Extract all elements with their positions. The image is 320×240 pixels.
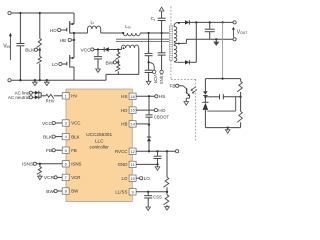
svg-text:HS: HS xyxy=(121,94,127,99)
svg-text:CSS: CSS xyxy=(153,194,162,199)
svg-text:FB: FB xyxy=(71,148,77,153)
svg-text:VCR: VCR xyxy=(71,175,80,180)
svg-text:controller: controller xyxy=(90,145,110,150)
svg-text:ISNS: ISNS xyxy=(22,162,33,168)
svg-text:VCC: VCC xyxy=(42,121,53,127)
svg-text:LO: LO xyxy=(122,176,128,181)
svg-text:BW: BW xyxy=(46,189,54,195)
svg-text:GND: GND xyxy=(118,162,128,167)
svg-text:CBOOT: CBOOT xyxy=(154,114,170,119)
svg-text:VCR: VCR xyxy=(44,175,55,181)
svg-text:VIN: VIN xyxy=(3,44,10,50)
svg-text:RVCC: RVCC xyxy=(115,149,127,154)
svg-text:VCC: VCC xyxy=(80,47,91,53)
svg-text:AC neutral: AC neutral xyxy=(8,95,29,100)
svg-text:ISNS: ISNS xyxy=(71,162,81,167)
svg-text:BW: BW xyxy=(71,189,79,194)
svg-text:FB: FB xyxy=(169,84,175,90)
svg-text:12: 12 xyxy=(130,149,135,154)
svg-text:BLK: BLK xyxy=(25,48,35,54)
svg-text:VCR: VCR xyxy=(153,74,158,83)
svg-text:BLK: BLK xyxy=(71,134,79,139)
svg-text:16: 16 xyxy=(130,94,135,99)
svg-text:HB: HB xyxy=(60,38,66,43)
svg-text:HO: HO xyxy=(158,108,165,114)
svg-text:HB: HB xyxy=(121,122,127,127)
svg-text:ISNS: ISNS xyxy=(159,74,164,84)
svg-text:HO: HO xyxy=(121,108,128,113)
svg-text:FB: FB xyxy=(46,148,52,154)
svg-text:LO: LO xyxy=(52,62,59,67)
svg-text:LL/SS: LL/SS xyxy=(115,190,127,195)
svg-text:LO: LO xyxy=(144,176,151,182)
svg-text:LLC: LLC xyxy=(95,138,104,143)
svg-text:BW: BW xyxy=(105,60,113,66)
svg-text:HV: HV xyxy=(71,94,77,99)
svg-text:14: 14 xyxy=(130,122,135,127)
svg-text:UCC256301: UCC256301 xyxy=(86,132,112,137)
svg-text:BLK: BLK xyxy=(43,134,53,140)
svg-text:HO: HO xyxy=(50,28,57,33)
svg-text:VCC: VCC xyxy=(71,121,80,126)
svg-text:RHV: RHV xyxy=(46,98,55,103)
svg-text:10: 10 xyxy=(130,176,135,181)
svg-text:Lm: Lm xyxy=(125,24,131,30)
svg-text:VOUT: VOUT xyxy=(237,29,248,35)
svg-text:HS: HS xyxy=(159,94,166,100)
svg-text:15: 15 xyxy=(130,108,135,113)
